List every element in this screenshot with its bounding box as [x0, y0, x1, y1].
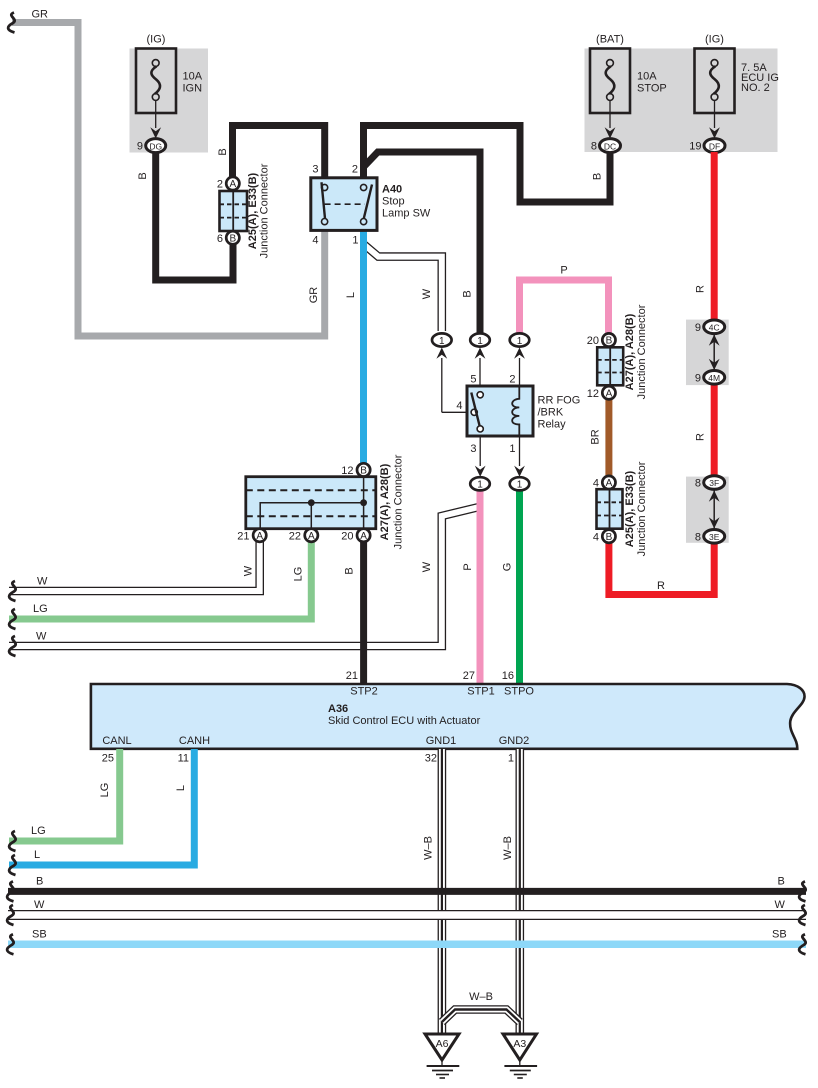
svg-text:1: 1 — [352, 235, 358, 247]
svg-text:STP1: STP1 — [467, 686, 495, 698]
wire W horizontal bus (hollow) — [7, 899, 806, 925]
svg-text:A27(A), A28(B): A27(A), A28(B) — [624, 313, 636, 390]
svg-text:A: A — [606, 389, 613, 400]
svg-text:B: B — [137, 172, 149, 179]
svg-text:L: L — [175, 785, 187, 791]
svg-text:3: 3 — [312, 164, 318, 176]
svg-text:21: 21 — [237, 530, 249, 542]
svg-text:/BRK: /BRK — [538, 407, 564, 419]
ground A3 — [503, 1034, 537, 1078]
svg-text:9: 9 — [137, 141, 143, 153]
wire B: DG oval to junction connector A25 pin B — [137, 152, 233, 280]
wire B: junction connector A25 pin A to A40 pin 3 — [217, 126, 325, 179]
junction connector A27(A),A28(B) small right — [587, 304, 648, 400]
svg-text:9: 9 — [695, 322, 701, 334]
svg-text:STOP: STOP — [637, 83, 667, 95]
svg-text:8: 8 — [695, 531, 701, 543]
svg-text:BR: BR — [590, 429, 602, 444]
svg-text:32: 32 — [425, 753, 437, 765]
svg-text:Relay: Relay — [538, 419, 567, 431]
wire W-B bridge between grounds — [442, 991, 520, 1022]
svg-text:P: P — [462, 563, 474, 570]
connector ovals 1 above relay — [432, 333, 472, 412]
svg-text:W–B: W–B — [423, 836, 435, 860]
svg-text:1: 1 — [477, 480, 483, 491]
svg-text:Lamp SW: Lamp SW — [382, 208, 431, 220]
svg-text:B: B — [344, 567, 356, 574]
svg-text:W–B: W–B — [502, 836, 514, 860]
svg-text:LG: LG — [293, 567, 305, 582]
wire W-B: ECU GND2 to ground A3 — [502, 749, 520, 1034]
wire W-B: ECU GND1 to ground A6 — [423, 749, 442, 1034]
svg-text:10A: 10A — [637, 71, 657, 83]
svg-text:W: W — [243, 565, 255, 576]
svg-text:GND1: GND1 — [426, 735, 457, 747]
junction connector A25(A),E33(B) lower right — [593, 461, 648, 556]
svg-text:STPO: STPO — [504, 686, 534, 698]
svg-text:A25(A), E33(B): A25(A), E33(B) — [624, 470, 636, 547]
svg-text:B: B — [217, 148, 229, 155]
svg-text:A: A — [229, 179, 236, 190]
wire W: left edge to P wire junction (hollow) — [9, 507, 479, 656]
wire B: A40 pin 2 to DC oval, with branch to relay oval — [364, 126, 611, 335]
wire W: A40 pin 1 to relay connector oval (hollow white) — [364, 245, 442, 334]
svg-text:Junction Connector: Junction Connector — [636, 304, 648, 399]
svg-text:3E: 3E — [709, 532, 720, 542]
svg-text:11: 11 — [178, 753, 189, 765]
svg-text:2: 2 — [509, 374, 515, 386]
wire W: junction connector A27 pin 21A to left edge (hollow) — [9, 539, 260, 601]
svg-text:A27(A), A28(B): A27(A), A28(B) — [379, 463, 391, 540]
svg-text:1: 1 — [439, 336, 445, 347]
ECU A36 Skid Control ECU with Actuator — [91, 670, 805, 765]
svg-text:5: 5 — [470, 374, 476, 386]
svg-text:NO. 2: NO. 2 — [741, 82, 770, 94]
svg-text:1: 1 — [477, 336, 483, 347]
fuse F2 10A STOP — [590, 34, 667, 139]
wire R: A25 pin B down and right up to 3E oval — [609, 542, 714, 595]
svg-text:8: 8 — [591, 141, 597, 153]
svg-text:25: 25 — [102, 753, 114, 765]
svg-text:GR: GR — [308, 287, 320, 304]
svg-text:19: 19 — [689, 141, 701, 153]
connector ovals 1 below relay — [470, 436, 490, 491]
fuse F1 10A IGN — [136, 34, 203, 139]
svg-text:SB: SB — [32, 929, 47, 941]
svg-text:A3: A3 — [513, 1038, 526, 1050]
svg-text:Stop: Stop — [382, 196, 405, 208]
svg-text:Junction Connector: Junction Connector — [393, 454, 405, 549]
svg-text:20: 20 — [587, 335, 599, 347]
svg-text:Junction Connector: Junction Connector — [259, 163, 271, 258]
svg-text:B: B — [606, 532, 613, 543]
svg-text:W: W — [421, 288, 433, 299]
fuse block shading (IG ignition) — [130, 49, 209, 153]
svg-text:4: 4 — [593, 531, 599, 543]
wire P: relay lower oval to ECU STP1 — [462, 489, 480, 684]
svg-text:A40: A40 — [382, 184, 402, 196]
svg-text:CANL: CANL — [102, 735, 131, 747]
wire G: relay lower oval to ECU STPO — [502, 489, 520, 684]
4C/4M connector block — [686, 320, 729, 386]
stop lamp switch A40 — [311, 164, 431, 247]
junction connector A27(A),A28(B) wide — [237, 454, 404, 549]
svg-text:2: 2 — [352, 164, 358, 176]
fuse block shading (BAT / IG right) — [585, 49, 778, 153]
svg-text:W–B: W–B — [469, 991, 493, 1003]
svg-text:3F: 3F — [709, 478, 719, 488]
svg-text:DF: DF — [709, 141, 720, 151]
svg-text:20: 20 — [341, 530, 353, 542]
3F/3E connector block — [686, 476, 729, 544]
connector oval DF pin 19 — [689, 139, 725, 153]
svg-text:4: 4 — [456, 400, 462, 412]
wire LG: junction connector A27 pin 22A to left edge — [9, 541, 311, 629]
svg-text:DG: DG — [149, 141, 162, 151]
svg-text:SB: SB — [772, 929, 787, 941]
svg-text:R: R — [657, 580, 665, 592]
svg-text:A: A — [256, 531, 263, 542]
wire SB horizontal bus — [7, 929, 806, 955]
svg-text:10A: 10A — [183, 71, 203, 83]
wire GR from left edge to A40 pin 4 — [8, 9, 325, 337]
svg-text:A: A — [360, 531, 367, 542]
svg-text:L: L — [345, 292, 357, 298]
svg-text:P: P — [560, 265, 567, 277]
svg-text:Junction Connector: Junction Connector — [636, 461, 648, 556]
svg-text:16: 16 — [502, 670, 514, 682]
svg-text:12: 12 — [341, 465, 353, 477]
svg-text:A: A — [308, 531, 315, 542]
svg-text:4: 4 — [593, 478, 599, 490]
svg-text:W: W — [34, 899, 45, 911]
svg-text:W: W — [36, 631, 47, 643]
svg-text:1: 1 — [509, 443, 515, 455]
svg-text:W: W — [37, 576, 48, 588]
wire B: junction connector A27 pin 20A to ECU STP2 — [344, 541, 364, 684]
svg-text:B: B — [360, 466, 367, 477]
connector oval DC pin 8 — [591, 139, 621, 153]
svg-text:GR: GR — [32, 9, 49, 21]
relay RR FOG /BRK — [456, 374, 580, 456]
left edge W wires squiggle group (already above) — [0, 0, 1, 1]
svg-text:9: 9 — [695, 372, 701, 384]
svg-text:1: 1 — [517, 336, 523, 347]
junction connector A25(A),E33(B) upper-left — [217, 163, 271, 258]
svg-text:RR FOG: RR FOG — [538, 395, 581, 407]
svg-text:LG: LG — [33, 603, 48, 615]
wire BR: A27/A28 pin A to A25/E33 pin A — [590, 399, 609, 477]
ground A6 — [425, 1034, 459, 1078]
svg-text:8: 8 — [695, 478, 701, 490]
svg-text:1: 1 — [517, 480, 523, 491]
wire B horizontal bus — [7, 876, 806, 902]
svg-text:B: B — [462, 290, 474, 297]
svg-text:B: B — [229, 234, 236, 245]
svg-text:A6: A6 — [436, 1038, 449, 1050]
svg-text:6: 6 — [217, 233, 223, 245]
svg-text:3: 3 — [470, 443, 476, 455]
wire LG: ECU CANL to left edge — [9, 749, 120, 851]
svg-text:27: 27 — [463, 670, 475, 682]
svg-text:G: G — [502, 563, 514, 572]
svg-text:4M: 4M — [708, 373, 720, 383]
svg-text:L: L — [34, 849, 40, 861]
svg-text:(IG): (IG) — [147, 34, 166, 46]
svg-text:(IG): (IG) — [705, 34, 724, 46]
svg-text:12: 12 — [587, 388, 599, 400]
svg-text:B: B — [778, 876, 785, 888]
svg-text:21: 21 — [346, 670, 358, 682]
svg-text:4: 4 — [312, 235, 318, 247]
svg-text:STP2: STP2 — [350, 686, 378, 698]
svg-text:W: W — [775, 899, 786, 911]
svg-text:LG: LG — [31, 825, 46, 837]
wire R: DF oval down to 4C oval — [695, 152, 715, 320]
svg-text:1: 1 — [508, 753, 514, 765]
svg-text:2: 2 — [217, 179, 223, 191]
svg-text:A25(A), E33(B): A25(A), E33(B) — [247, 172, 259, 249]
connector oval DG pin 9 — [137, 139, 166, 153]
svg-text:B: B — [36, 876, 43, 888]
svg-text:A36: A36 — [328, 703, 348, 715]
wire P: relay oval to junction connector A27/A28 pin B 20 — [520, 265, 609, 336]
svg-text:CANH: CANH — [179, 735, 210, 747]
svg-text:W: W — [421, 561, 433, 572]
svg-text:LG: LG — [99, 783, 111, 798]
svg-text:B: B — [592, 173, 604, 180]
wire R: 4M oval down to 3F oval — [695, 384, 715, 476]
svg-text:IGN: IGN — [183, 83, 203, 95]
svg-text:DC: DC — [604, 141, 616, 151]
wire L: ECU CANH to left edge — [9, 749, 194, 875]
svg-text:4C: 4C — [709, 323, 720, 333]
svg-text:Skid Control ECU with Actuator: Skid Control ECU with Actuator — [328, 715, 481, 727]
svg-text:R: R — [695, 285, 707, 293]
svg-text:GND2: GND2 — [499, 735, 530, 747]
wire L: A40 pin 1 to junction connector A27 pin B — [345, 231, 364, 464]
svg-text:22: 22 — [289, 530, 301, 542]
fuse F3 7.5A ECU IG NO.2 — [695, 34, 779, 139]
svg-text:A: A — [606, 478, 613, 489]
svg-text:R: R — [695, 433, 707, 441]
svg-text:(BAT): (BAT) — [596, 34, 624, 46]
svg-text:B: B — [606, 336, 613, 347]
